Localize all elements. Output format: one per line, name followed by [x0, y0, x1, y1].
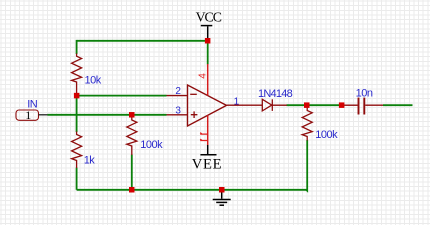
op-amp plus sign: [191, 111, 198, 118]
op-amp pin1 output lead: [227, 104, 263, 106]
junction VCC node: [205, 38, 211, 44]
power symbol VEE: [200, 145, 216, 155]
op-amp pin3 lead: [167, 114, 188, 116]
svg-text:VEE: VEE: [192, 157, 222, 173]
wire left vertical mid (10k node down to 1k): [76, 96, 78, 132]
wire left vertical bottom (1k to bottom rail): [76, 168, 78, 190]
junction bottom 100k node: [129, 187, 135, 193]
wire VCC down to pin4: [207, 41, 209, 65]
op-amp pin2 lead: [167, 95, 188, 97]
op-amp pin11 lead: [207, 115, 209, 145]
wire diode to cap junction: [287, 104, 343, 106]
svg-text:10n: 10n: [356, 88, 373, 100]
resistor R4 100k (right): [302, 108, 312, 141]
wire 100k right bottom lead: [306, 140, 307, 191]
ground: [213, 192, 231, 205]
wire top horizontal: [77, 40, 208, 42]
wire IN horizontal: [48, 114, 167, 116]
svg-text:3: 3: [175, 106, 181, 117]
svg-text:VCC: VCC: [196, 10, 222, 25]
wire bottom rail: [77, 189, 308, 191]
junction cap node: [339, 102, 345, 108]
junction 10k/1k/pin2 node: [74, 93, 80, 99]
pin number 11 (rotated): [200, 133, 207, 141]
svg-text:100k: 100k: [315, 129, 338, 141]
svg-text:2: 2: [175, 86, 181, 97]
wire cap to output right: [383, 104, 413, 106]
svg-text:100k: 100k: [140, 139, 163, 151]
svg-text:10k: 10k: [85, 75, 102, 87]
op-amp minus sign: [190, 93, 197, 95]
wire left vertical top (to 10k): [76, 40, 78, 54]
junction output/100k node: [304, 102, 310, 108]
terminal IN box: [16, 110, 39, 120]
diode D1 1N4148: [262, 99, 287, 111]
power symbol VCC: [201, 26, 213, 39]
wire 100k left bottom lead: [131, 155, 133, 190]
resistor R2 1k: [72, 132, 82, 169]
resistor R1 10k: [72, 54, 82, 94]
capacitor C1 10n: [343, 98, 383, 115]
op-amp U1 triangle: [188, 85, 227, 126]
svg-text:1k: 1k: [84, 155, 96, 167]
wire pin2 horizontal: [77, 95, 167, 97]
junction ground node: [219, 187, 225, 193]
junction IN/100k node: [129, 112, 135, 118]
svg-text:1: 1: [25, 108, 31, 122]
svg-text:4: 4: [198, 73, 209, 79]
svg-text:1: 1: [234, 96, 240, 107]
resistor R3 100k (left): [127, 117, 137, 155]
terminal IN pin lead: [39, 114, 48, 116]
op-amp pin4 lead: [207, 64, 209, 96]
svg-text:1N4148: 1N4148: [258, 88, 293, 100]
